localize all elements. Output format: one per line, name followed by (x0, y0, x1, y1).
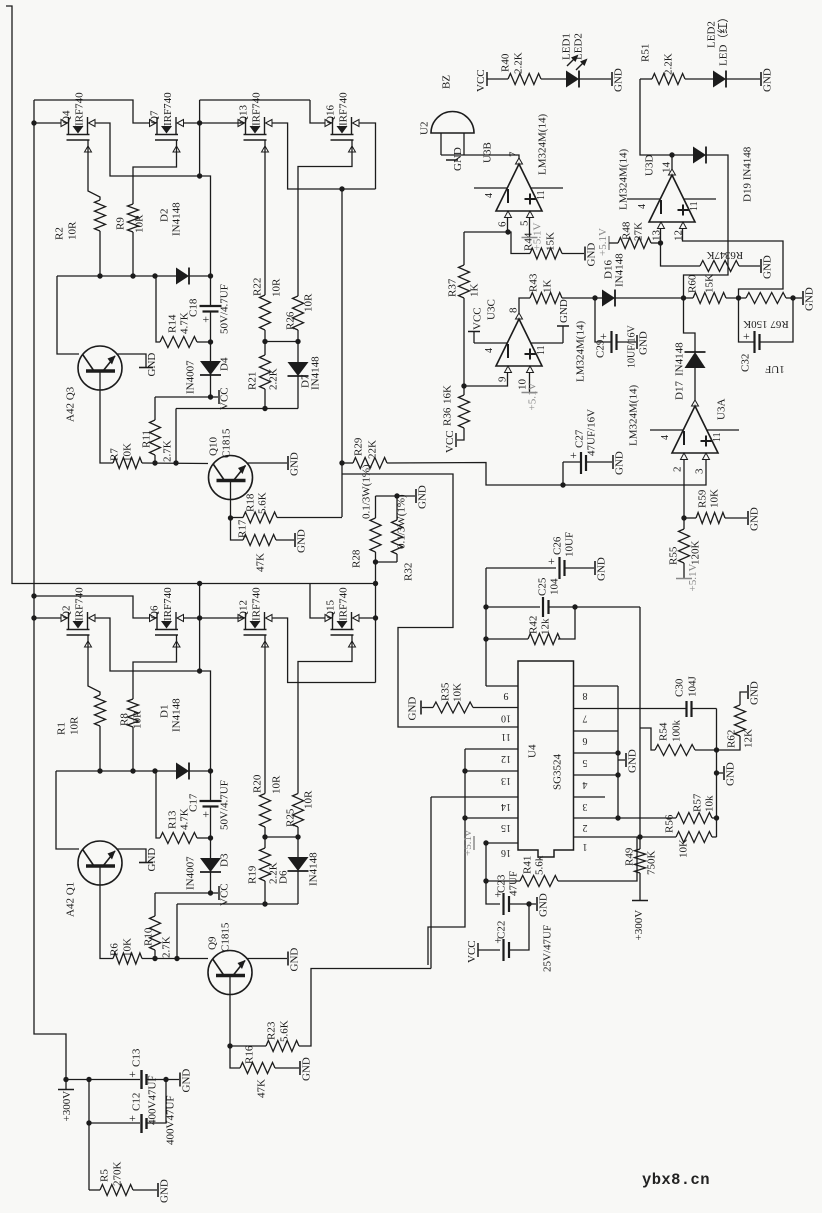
svg-text:2.2K: 2.2K (268, 368, 280, 390)
wire (565, 567, 595, 569)
wire (717, 772, 724, 774)
node (592, 295, 597, 300)
label R18 5.6K (257, 492, 269, 514)
wire Q6 drain (184, 617, 200, 619)
svg-text:R60: R60 (687, 274, 699, 293)
pin 5 number (583, 757, 588, 768)
svg-text:10R: 10R (132, 710, 144, 729)
label R11 (141, 430, 153, 448)
label pin5 (519, 220, 531, 226)
label U2 (419, 122, 431, 135)
node (130, 273, 135, 278)
svg-text:LM324M(14): LM324M(14) (618, 149, 630, 210)
resistor R13 (160, 833, 197, 844)
wire fb divider leg (716, 709, 718, 838)
svg-text:14: 14 (661, 162, 673, 174)
wire (640, 728, 655, 750)
svg-text:D19 IN4148: D19 IN4148 (742, 146, 754, 202)
op-amp U3A (650, 400, 739, 460)
transistor Q10 C1815 (209, 456, 253, 500)
svg-text:2: 2 (672, 467, 684, 473)
svg-text:10K: 10K (678, 839, 690, 858)
label R44 15K (545, 232, 557, 251)
resistor R26 (293, 296, 304, 330)
label D4 IN4007 (185, 360, 197, 394)
svg-text:2: 2 (583, 822, 588, 833)
pin 6 number (583, 735, 588, 746)
wire (211, 396, 219, 398)
capacitor C25 (543, 597, 549, 617)
svg-text:R51: R51 (640, 44, 652, 62)
svg-text:GND: GND (613, 68, 625, 92)
svg-text:IRF740: IRF740 (338, 92, 350, 126)
transistor Q7 (150, 117, 184, 152)
resistor R59 (696, 513, 725, 524)
wire Q9 emitter (247, 958, 287, 960)
svg-text:VCC: VCC (219, 387, 231, 410)
svg-text:IN4148: IN4148 (614, 253, 626, 287)
svg-text:+5.1V: +5.1V (687, 564, 699, 592)
wire R14 left leg (156, 276, 160, 342)
diode D16 (602, 290, 615, 307)
svg-text:GND: GND (538, 893, 550, 917)
svg-text:5: 5 (583, 757, 588, 768)
resistor R32 (392, 520, 403, 554)
svg-text:10k: 10k (704, 795, 716, 812)
label LED2 red (717, 12, 730, 66)
ground C27 (613, 451, 626, 475)
svg-text:R6: R6 (109, 943, 121, 956)
svg-text:R56: R56 (664, 814, 676, 833)
svg-text:12: 12 (501, 753, 511, 764)
wire (275, 1067, 299, 1069)
wire (684, 298, 696, 352)
capacitor C12 (129, 1111, 147, 1133)
wire (175, 409, 177, 464)
resistor R56 (676, 832, 712, 843)
svg-text:15: 15 (501, 822, 511, 833)
label R11 2.7K (162, 440, 174, 462)
label C30 (674, 678, 686, 697)
capacitor C13 (129, 1067, 147, 1089)
label R1 (56, 722, 68, 735)
label BZ (441, 75, 453, 89)
diode D4 (200, 361, 221, 375)
power +5.1v pin16 (462, 830, 474, 856)
label R40 2.2K (513, 52, 525, 74)
wire (684, 297, 694, 299)
svg-text:GND: GND (762, 68, 774, 92)
wire (231, 517, 244, 519)
label R42 (528, 616, 540, 634)
wire (376, 561, 398, 563)
wire pin16 stub (486, 842, 518, 844)
wire pin11 route (342, 474, 518, 727)
wire (586, 461, 612, 463)
svg-text:GND: GND (296, 529, 308, 553)
wire (210, 312, 212, 362)
LED LED2 (713, 71, 726, 88)
wire (487, 78, 508, 80)
svg-text:+300V: +300V (61, 1091, 73, 1122)
svg-text:Q12: Q12 (238, 600, 250, 619)
label C25 (537, 577, 549, 596)
label U3A LM324 (628, 385, 640, 446)
wire (297, 827, 299, 837)
svg-text:12k: 12k (540, 618, 552, 635)
svg-text:R63: R63 (724, 249, 743, 261)
svg-text:11: 11 (501, 731, 511, 742)
wire (210, 872, 212, 893)
label R51 2.2K (663, 53, 675, 75)
label R32 value (396, 494, 408, 549)
ground C26 (595, 557, 608, 581)
LED LED1 (566, 71, 579, 88)
svg-text:VCC: VCC (466, 940, 478, 963)
wire row1 gate bus A (34, 100, 150, 123)
ground R62 (748, 681, 761, 705)
node (483, 636, 488, 641)
svg-text:D17: D17 (674, 381, 686, 400)
power VCC U3C (468, 307, 484, 343)
svg-text:+: + (548, 554, 555, 568)
node (86, 1120, 91, 1125)
wire (672, 154, 693, 156)
label pin14 (661, 162, 673, 174)
label C30 104J (687, 676, 699, 698)
svg-text:3: 3 (583, 801, 588, 812)
wire Q7 source (133, 146, 177, 204)
label Q10 (208, 437, 220, 456)
resistor R19 (260, 848, 271, 881)
node pin15 (462, 815, 467, 820)
svg-text:120K: 120K (690, 541, 702, 566)
wire (155, 396, 211, 398)
svg-text:C17: C17 (188, 793, 200, 812)
label C27 (574, 429, 586, 448)
svg-text:+: + (129, 1111, 136, 1125)
svg-text:C23: C23 (496, 874, 508, 893)
wire (211, 892, 219, 894)
resistor R28 (370, 518, 381, 552)
transistor Q13 (238, 117, 272, 152)
svg-text:R57: R57 (692, 793, 704, 812)
wire (595, 297, 602, 299)
wire (66, 1079, 140, 1081)
svg-text:IRF740: IRF740 (162, 92, 174, 126)
svg-text:Q4: Q4 (61, 110, 73, 124)
wire (617, 341, 637, 343)
wire (463, 232, 465, 265)
svg-text:LM324M(14): LM324M(14) (628, 385, 640, 446)
label R29 (353, 437, 365, 456)
node R23/R16 (227, 1043, 232, 1048)
ground LED2 (761, 68, 774, 92)
svg-text:R8: R8 (119, 713, 131, 726)
node Q2 drain junction (197, 668, 202, 673)
svg-text:R42: R42 (528, 616, 540, 634)
label C29 value (627, 324, 638, 368)
svg-text:IRF740: IRF740 (338, 587, 350, 621)
svg-text:14: 14 (501, 801, 511, 812)
wire (146, 1079, 179, 1081)
wire drive bus row2 (56, 770, 176, 772)
wire osc bus (486, 606, 540, 608)
transistor Q16 (325, 117, 359, 152)
svg-text:R32: R32 (403, 563, 415, 581)
wire (264, 837, 266, 848)
resistor R43 (530, 293, 562, 304)
svg-text:R37: R37 (447, 278, 459, 297)
node Q7 drain / Q13 gate (197, 120, 202, 125)
svg-text:R10: R10 (143, 927, 155, 946)
label C22 (496, 921, 508, 939)
svg-text:5: 5 (519, 220, 531, 226)
svg-text:47UF: 47UF (508, 871, 520, 896)
resistor R20 (260, 794, 271, 828)
wire feedback to pin14 (299, 969, 431, 1047)
node (714, 770, 719, 775)
wire C18 column (200, 176, 211, 306)
resistor R14 (160, 337, 197, 348)
transistor Q15 (325, 612, 359, 647)
svg-text:50V/4.7UF: 50V/4.7UF (219, 780, 231, 830)
wire (509, 903, 529, 905)
wire (739, 265, 760, 267)
label pin12 (673, 230, 685, 241)
svg-text:+300V: +300V (633, 910, 645, 941)
svg-text:16K: 16K (442, 385, 454, 404)
svg-text:GND: GND (452, 147, 464, 171)
node Q10 base bus (173, 460, 178, 465)
label R20 10R (271, 775, 283, 794)
svg-text:SG3524: SG3524 (552, 753, 564, 790)
node (262, 834, 267, 839)
label R21 (247, 372, 259, 390)
svg-text:Q6: Q6 (149, 605, 161, 619)
label pin13 (651, 230, 663, 242)
label C12 value (165, 1095, 177, 1145)
svg-text:R29: R29 (353, 437, 365, 456)
wire (342, 462, 353, 464)
wire (486, 638, 528, 640)
label R63 47K (706, 249, 725, 261)
wire (396, 496, 398, 520)
IC U4 SG3524 body (518, 661, 574, 857)
wire (396, 554, 398, 562)
resistor R40 (508, 74, 541, 85)
svg-text:LED（红）: LED（红） (717, 12, 730, 66)
label R21 2.2K (268, 368, 280, 390)
wire R11 top (154, 397, 156, 420)
label D1 IN4148 (171, 698, 183, 732)
wire (176, 904, 178, 959)
svg-text:D6: D6 (278, 870, 290, 884)
wire (99, 231, 101, 276)
label R13 4.7K (179, 808, 191, 830)
svg-text:R16: R16 (244, 1045, 256, 1064)
svg-text:4: 4 (484, 348, 495, 353)
svg-text:U3D: U3D (644, 155, 656, 176)
wire (509, 904, 529, 950)
ground divider (724, 762, 737, 786)
wire Q6 source (133, 641, 177, 699)
wire (464, 231, 508, 233)
resistor R2 (95, 200, 106, 231)
wire Q3 collector (100, 390, 113, 463)
label D4 (219, 357, 231, 371)
svg-text:C32: C32 (740, 354, 752, 372)
node (152, 273, 157, 278)
svg-text:+5.1V: +5.1V (532, 223, 544, 251)
resistor R60 (693, 293, 726, 304)
resistor R48 (618, 238, 651, 249)
wire pin14 stub (431, 796, 518, 798)
label Q12 IRF740 (251, 587, 263, 621)
resistor R54 (655, 745, 695, 756)
wire pin6 stub (486, 685, 518, 687)
ground R63 (761, 255, 774, 279)
wire (154, 455, 156, 463)
label D2 (159, 209, 171, 222)
wire (230, 1046, 240, 1068)
svg-text:U4: U4 (527, 744, 539, 758)
svg-text:GND: GND (614, 451, 626, 475)
svg-text:IRF740: IRF740 (251, 92, 263, 126)
svg-text:4: 4 (583, 779, 588, 790)
wire (486, 567, 556, 569)
label Q13 IRF740 (251, 92, 263, 126)
svg-text:GND: GND (762, 255, 774, 279)
label D2 IN4148 (171, 202, 183, 236)
node VCC tap row1 (208, 394, 213, 399)
label C27 value (586, 409, 598, 456)
diode D17 (685, 352, 706, 368)
node (681, 515, 686, 520)
svg-text:47K: 47K (255, 553, 267, 572)
label SG3524 (552, 753, 564, 790)
wire Q2 drain (95, 618, 200, 671)
svg-text:4: 4 (484, 193, 495, 198)
wire feedback rail (639, 607, 641, 849)
wire (661, 243, 701, 266)
svg-text:10K: 10K (709, 489, 721, 508)
svg-text:IRF740: IRF740 (251, 587, 263, 621)
svg-text:D3: D3 (219, 853, 231, 867)
ground U3C pin11 (557, 299, 570, 343)
wire (725, 517, 747, 519)
svg-text:LED1: LED1 (561, 33, 573, 60)
svg-text:25V/47UF: 25V/47UF (542, 925, 554, 972)
label R29 22K (367, 440, 379, 459)
ground R59 (748, 507, 761, 531)
wire Q7 drain (184, 122, 200, 124)
label C22 value (542, 925, 554, 972)
transistor Q6 (150, 612, 184, 647)
wire (297, 871, 299, 904)
node (373, 559, 378, 564)
node pin13 (462, 768, 467, 773)
svg-text:6: 6 (583, 735, 588, 746)
wire (297, 330, 299, 342)
power VCC LED1 (475, 69, 487, 92)
diode D7 (288, 362, 309, 376)
svg-text:VCC: VCC (475, 69, 487, 92)
wire (297, 342, 299, 363)
svg-text:7: 7 (508, 151, 520, 157)
svg-text:Q10: Q10 (208, 437, 220, 456)
pin 2 number (583, 822, 588, 833)
label D3 (219, 853, 231, 867)
transistor Q1 A42 (78, 841, 122, 885)
svg-text:IN4148: IN4148 (674, 342, 686, 376)
label R14 (167, 314, 179, 333)
label R48 27K (633, 222, 645, 241)
node (208, 273, 213, 278)
wire (88, 1080, 90, 1191)
svg-text:C26: C26 (552, 536, 564, 555)
svg-text:8: 8 (583, 690, 588, 701)
wire (147, 1080, 167, 1124)
label R23 (266, 1021, 278, 1040)
label Q15 IRF740 (338, 587, 350, 621)
svg-text:50V/4.7UF: 50V/4.7UF (219, 284, 231, 334)
label U3D LM324 (618, 149, 630, 210)
label R36 16K (442, 385, 454, 404)
svg-text:R5: R5 (99, 1169, 111, 1182)
wire (231, 518, 244, 540)
label R59 (697, 489, 709, 508)
wire (264, 342, 266, 356)
node (262, 406, 267, 411)
resistor R37 (459, 265, 470, 298)
pin 9 number (504, 690, 509, 701)
diode D3 (200, 858, 221, 872)
resistor R17 (243, 535, 276, 546)
svg-text:10R: 10R (69, 716, 81, 735)
svg-text:C27: C27 (574, 429, 586, 448)
power VCC row1 (219, 387, 231, 410)
svg-text:11: 11 (536, 190, 547, 200)
label R5 (99, 1169, 111, 1182)
svg-text:Q16: Q16 (325, 105, 337, 124)
label R36 (442, 407, 454, 426)
capacitor C32 (743, 329, 760, 353)
label R9 10R (134, 214, 146, 233)
wire (717, 736, 741, 750)
wire row1 gate bus B (200, 99, 310, 101)
wire (786, 297, 802, 299)
svg-text:GND: GND (749, 507, 761, 531)
label R51 (640, 44, 652, 62)
wire Q15 source (298, 641, 352, 794)
resistor R41 (520, 876, 558, 887)
resistor R10 (150, 916, 161, 950)
label R19 (247, 865, 259, 884)
label D7 IN4148 (310, 356, 322, 390)
label D17 IN4148 (674, 342, 686, 376)
svg-text:IN4148: IN4148 (171, 202, 183, 236)
label R42 12k (540, 618, 552, 635)
svg-text:47K: 47K (706, 249, 725, 261)
wire VCC drive rail row1 (176, 408, 298, 410)
resistor R63 (700, 261, 739, 272)
pin 7 number (583, 713, 588, 724)
node pin5 gnd (615, 750, 620, 755)
power VCC R36 (444, 430, 456, 453)
svg-text:104J: 104J (687, 676, 699, 698)
svg-text:5.6k: 5.6k (534, 855, 546, 875)
